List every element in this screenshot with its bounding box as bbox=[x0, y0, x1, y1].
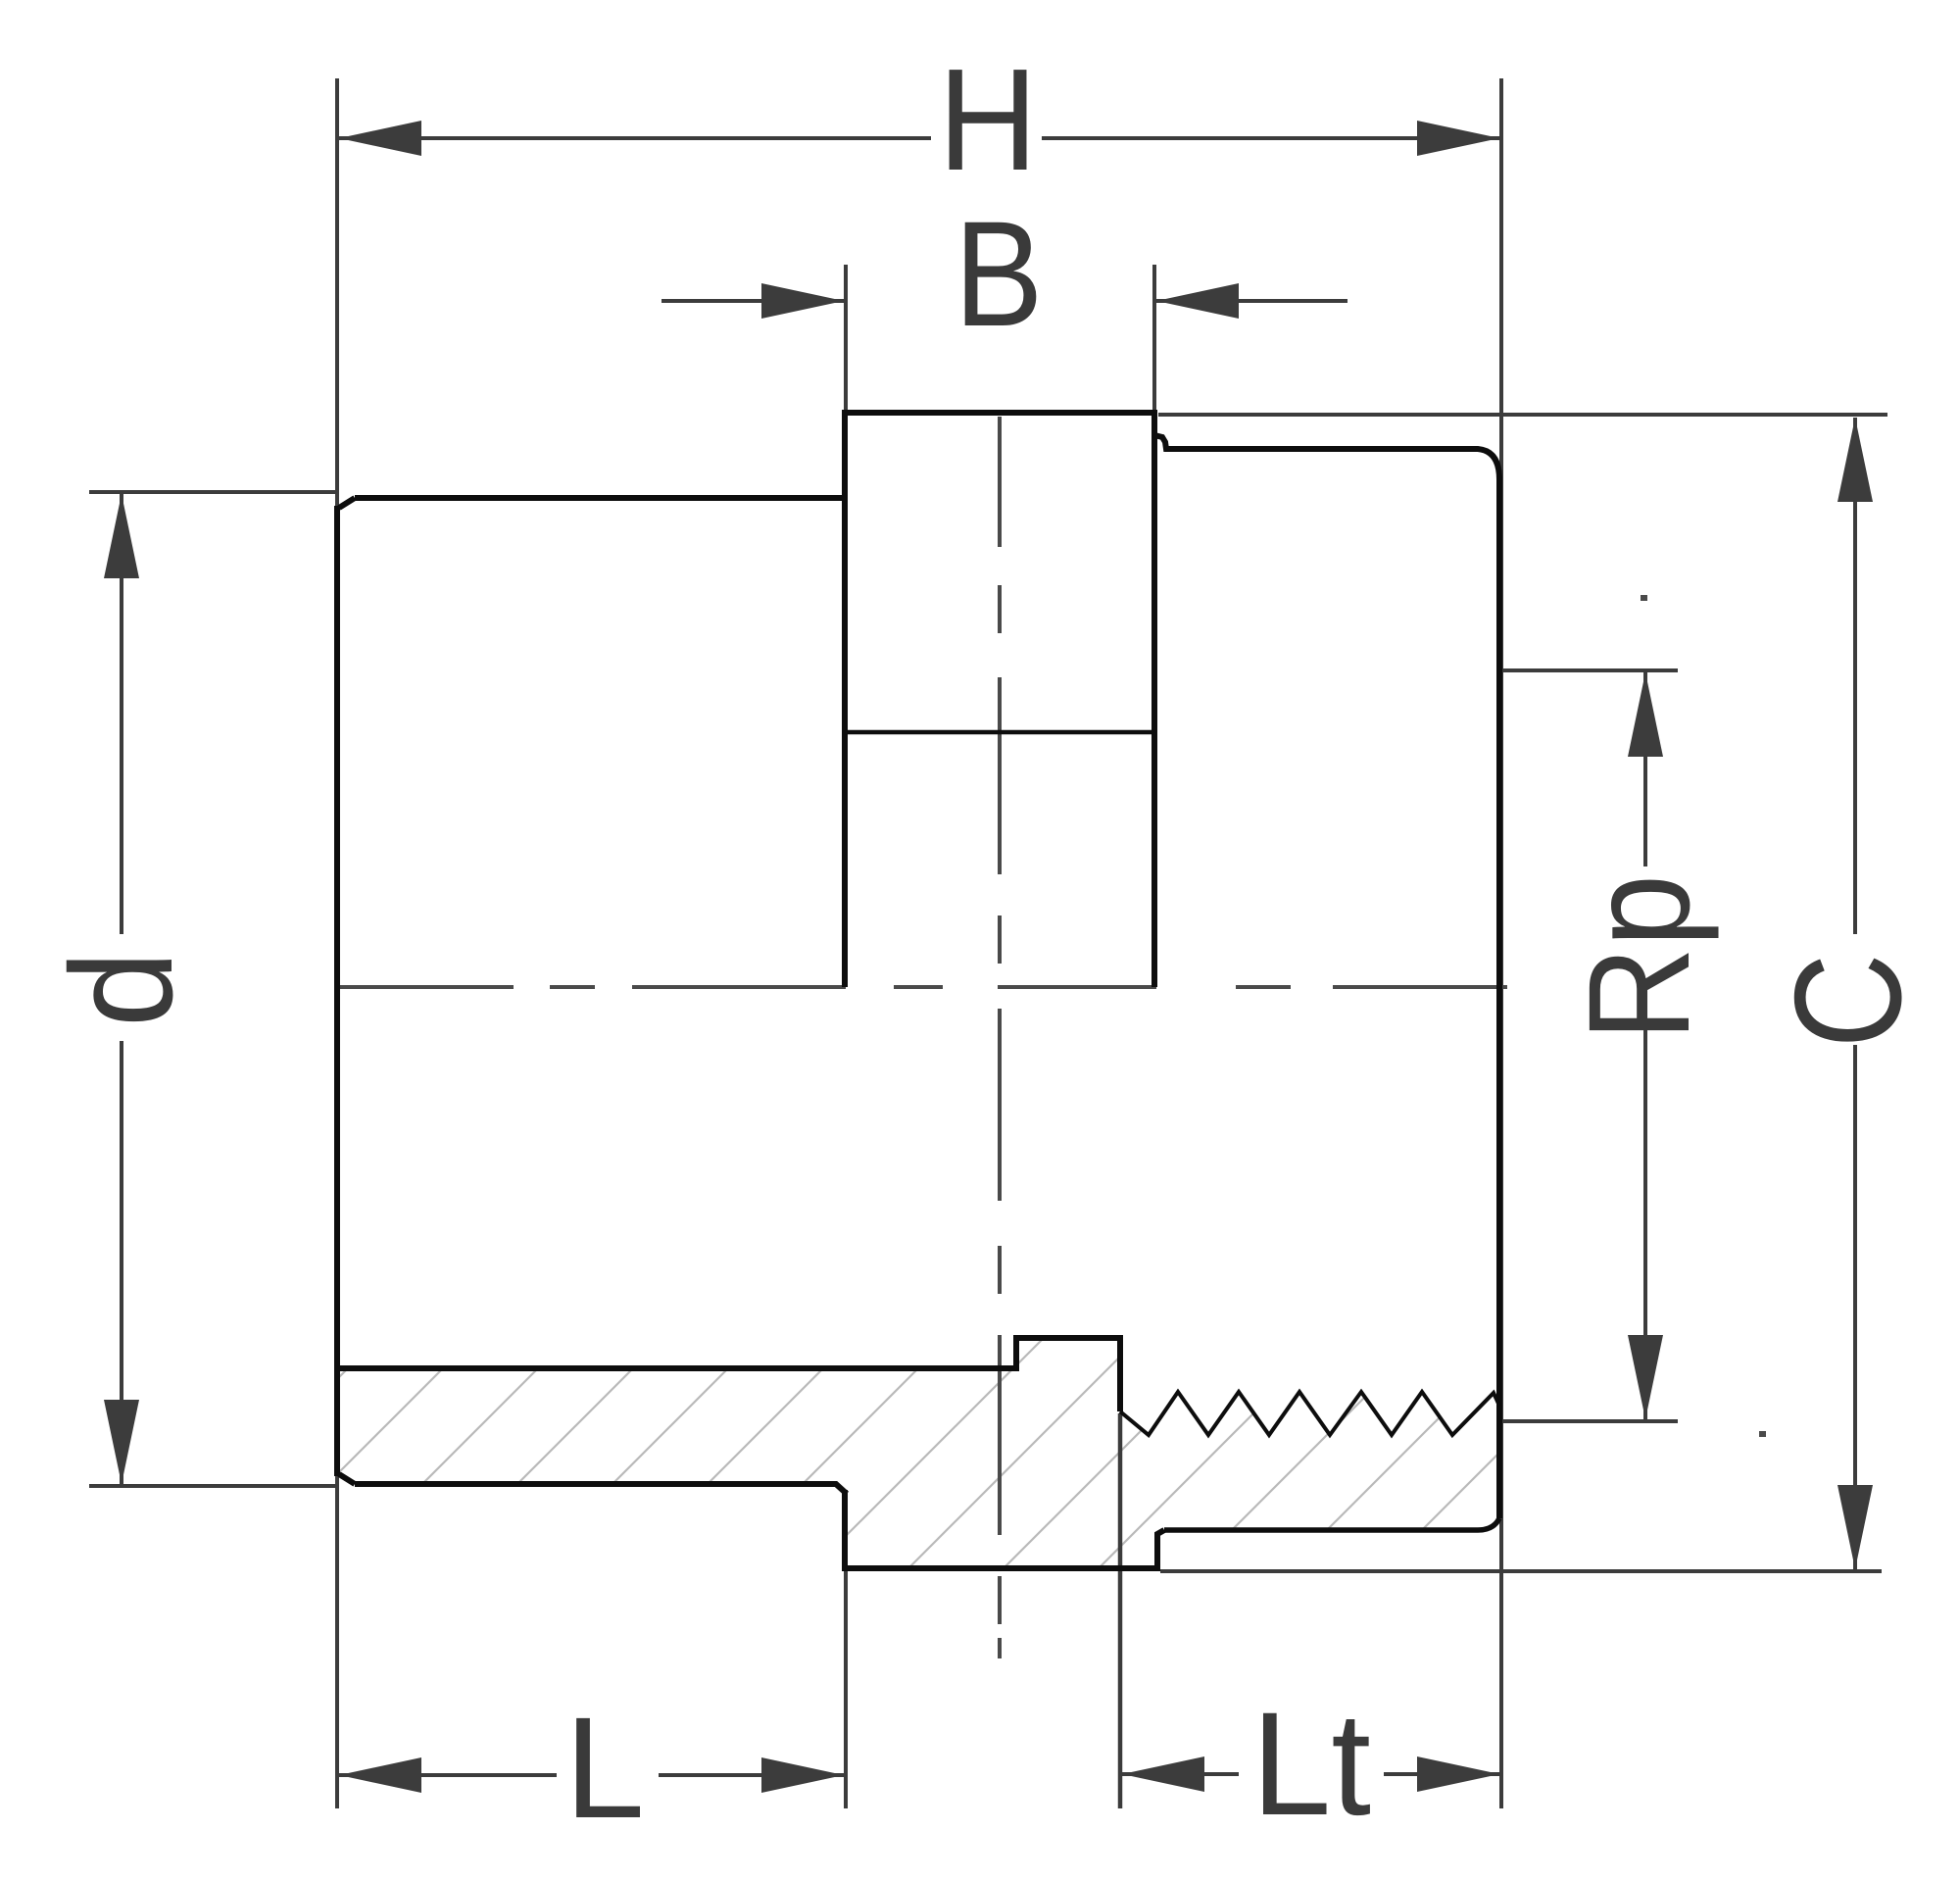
right part bottom edge bbox=[1164, 1518, 1499, 1530]
B arrow right bbox=[1156, 283, 1239, 319]
hatched section wall (cut lower half) bbox=[339, 1340, 1497, 1568]
dimension Rp line bbox=[1643, 672, 1647, 866]
dimension Lt line bbox=[1122, 1772, 1239, 1776]
Lt extension line left (x=1143 below body) bbox=[1118, 1413, 1123, 1808]
H arrow right bbox=[1417, 121, 1499, 156]
C arrow down bbox=[1837, 1485, 1873, 1569]
svg-text:B: B bbox=[955, 190, 1044, 358]
centerline vertical (hex axis) bbox=[998, 417, 1002, 1658]
L extension line right (x=863 below body) bbox=[844, 1570, 848, 1808]
left face bbox=[334, 506, 340, 1476]
Lt arrow right bbox=[1417, 1756, 1499, 1792]
body outline: left socket part bbox=[355, 495, 845, 501]
d extension line bottom bbox=[89, 1484, 337, 1488]
B extension line left bbox=[844, 265, 848, 413]
svg-text:C: C bbox=[1763, 954, 1933, 1049]
dimension C line bbox=[1853, 418, 1857, 934]
dimension L line bbox=[339, 1773, 557, 1777]
dimension B line bbox=[661, 299, 844, 303]
C arrow up bbox=[1837, 418, 1873, 502]
hex facet line bbox=[845, 730, 1154, 735]
socket mouth chamfer bottom bbox=[339, 1474, 355, 1484]
Lt arrow left bbox=[1122, 1756, 1204, 1792]
body bottom edge left part bbox=[355, 1484, 847, 1494]
Rp extension line top bbox=[1503, 668, 1678, 672]
C extension line top bbox=[1158, 413, 1887, 417]
svg-text:Rp: Rp bbox=[1559, 874, 1720, 1041]
d arrow up bbox=[104, 494, 139, 578]
socket bore line (section) bbox=[338, 1338, 1120, 1411]
dimension d line bbox=[120, 494, 123, 934]
dimension H line bbox=[339, 136, 931, 140]
d arrow down bbox=[104, 1400, 139, 1484]
hex spigot top bbox=[845, 413, 1154, 987]
right face bbox=[1496, 476, 1502, 1518]
Rp extension line bottom bbox=[1503, 1419, 1678, 1423]
speck artifact 2 bbox=[1759, 1431, 1766, 1437]
H extension line left (x=344) bbox=[335, 78, 339, 1808]
thread zigzag bbox=[1120, 1392, 1499, 1435]
d extension line top bbox=[89, 490, 337, 494]
L arrow left bbox=[339, 1757, 421, 1793]
right part top edge bbox=[1154, 435, 1499, 479]
speck artifact 1 bbox=[1641, 595, 1647, 601]
svg-text:L: L bbox=[564, 1688, 645, 1849]
svg-text:H: H bbox=[938, 39, 1038, 201]
Rp arrow down bbox=[1628, 1335, 1663, 1419]
C extension line bottom bbox=[1160, 1569, 1882, 1573]
Rp arrow up bbox=[1628, 672, 1663, 757]
centerline horizontal (axis) bbox=[339, 985, 1507, 989]
socket mouth chamfer top bbox=[339, 498, 355, 508]
B extension line right bbox=[1152, 265, 1156, 413]
H arrow left bbox=[339, 121, 421, 156]
H extension line right / Lt extension right (x=1532) bbox=[1499, 78, 1503, 1808]
hex bulge bottom bbox=[845, 1490, 1164, 1568]
svg-text:d: d bbox=[41, 951, 203, 1027]
L arrow right bbox=[761, 1757, 844, 1793]
B arrow left bbox=[761, 283, 844, 319]
svg-text:Lt: Lt bbox=[1251, 1681, 1371, 1846]
